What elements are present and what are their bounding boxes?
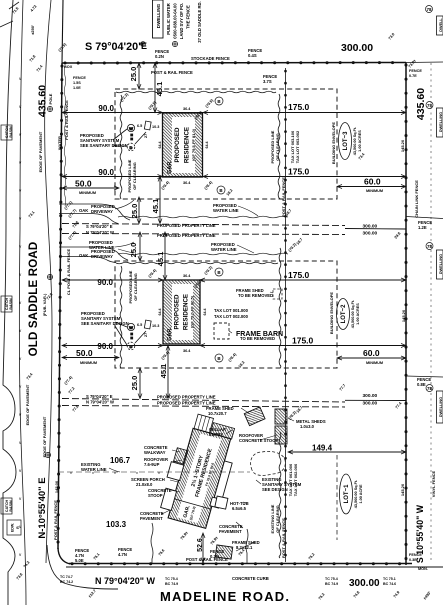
svg-text:25.0: 25.0 xyxy=(130,204,139,219)
svg-text:TAX LOT 002.000: TAX LOT 002.000 xyxy=(293,463,298,496)
svg-text:27: 27 xyxy=(144,333,148,337)
svg-text:DWELLING: DWELLING xyxy=(439,397,443,417)
svg-text:BUILDING ENVELOPE: BUILDING ENVELOPE xyxy=(329,292,334,335)
svg-text:±250': ±250' xyxy=(30,25,35,35)
svg-text:S 79°04'20" E: S 79°04'20" E xyxy=(86,394,113,399)
svg-text:145.20: 145.20 xyxy=(400,483,405,496)
svg-text:435.60: 435.60 xyxy=(37,85,49,117)
svg-text:36.4: 36.4 xyxy=(183,181,191,185)
svg-text:4.7N: 4.7N xyxy=(118,552,127,557)
svg-text:DRIVEWAY: DRIVEWAY xyxy=(91,209,113,214)
svg-text:SEE DESIGN: SEE DESIGN xyxy=(262,487,288,492)
svg-text:0.8E: 0.8E xyxy=(417,382,426,387)
svg-text:6.5: 6.5 xyxy=(137,124,142,128)
svg-text:v: v xyxy=(158,470,160,475)
svg-text:25.0: 25.0 xyxy=(129,67,138,82)
svg-text:45.1: 45.1 xyxy=(156,252,165,267)
svg-text:CONCRETE CURB: CONCRETE CURB xyxy=(232,576,269,581)
svg-text:SEE SANITARY DESIGN: SEE SANITARY DESIGN xyxy=(80,143,128,148)
svg-text:25.0: 25.0 xyxy=(130,376,139,391)
svg-text:103.3: 103.3 xyxy=(106,520,127,529)
svg-text:N-10°55'40" E: N-10°55'40" E xyxy=(37,477,48,538)
svg-text:EDGE OF PAVEMENT: EDGE OF PAVEMENT xyxy=(25,384,30,425)
svg-text:STOCKADE FENCE: STOCKADE FENCE xyxy=(191,56,230,61)
svg-text:52.6: 52.6 xyxy=(197,538,204,552)
svg-text:SEE SANITARY DESIGN: SEE SANITARY DESIGN xyxy=(81,321,129,326)
svg-text:DRIVEWAY: DRIVEWAY xyxy=(91,254,113,259)
svg-text:BC 74.2: BC 74.2 xyxy=(60,580,73,584)
svg-text:W: W xyxy=(129,126,133,131)
svg-text:EDGE OF PAVEMENT: EDGE OF PAVEMENT xyxy=(42,416,47,457)
svg-text:10.3: 10.3 xyxy=(152,125,159,129)
svg-text:LOT~2: LOT~2 xyxy=(341,304,347,324)
svg-text:300.00: 300.00 xyxy=(341,42,373,54)
svg-text:R: R xyxy=(16,526,20,529)
svg-text:DWELLING: DWELLING xyxy=(439,112,443,132)
svg-text:FENCE: FENCE xyxy=(409,69,422,73)
svg-text:1.00 ACRES: 1.00 ACRES xyxy=(358,130,362,152)
svg-text:MINIMUM: MINIMUM xyxy=(366,189,383,193)
svg-text:300.00: 300.00 xyxy=(363,224,378,230)
svg-text:43,560.00 Sq.Ft.: 43,560.00 Sq.Ft. xyxy=(354,480,358,509)
svg-text:64.4: 64.4 xyxy=(158,309,162,316)
svg-text:PROPOSED: PROPOSED xyxy=(174,294,181,330)
svg-text:60.0: 60.0 xyxy=(363,348,380,358)
svg-text:POLE: POLE xyxy=(48,93,53,104)
svg-text:1.00 ACRES: 1.00 ACRES xyxy=(356,303,360,325)
svg-text:S 79°04'20": S 79°04'20" xyxy=(85,41,143,53)
svg-text:64.4: 64.4 xyxy=(205,142,209,149)
svg-text:25.0: 25.0 xyxy=(129,243,138,258)
svg-text:TO BE REMOVED: TO BE REMOVED xyxy=(238,293,273,298)
svg-text:43,560.00 Sq.Ft.: 43,560.00 Sq.Ft. xyxy=(353,127,357,156)
svg-text:LAND SVY OF PO.: LAND SVY OF PO. xyxy=(179,3,184,39)
svg-text:OF CLEARING: OF CLEARING xyxy=(275,133,280,161)
svg-text:MON.: MON. xyxy=(418,567,428,571)
svg-text:GAR.: GAR. xyxy=(167,160,173,174)
svg-text:OF CLEARING: OF CLEARING xyxy=(133,273,138,301)
svg-text:GAR.: GAR. xyxy=(167,327,173,341)
svg-text:78: 78 xyxy=(427,386,433,391)
svg-text:RESIDENCE: RESIDENCE xyxy=(184,127,191,163)
svg-text:PROPOSED PROPERTY LINE: PROPOSED PROPERTY LINE xyxy=(157,233,216,238)
svg-text:145.20: 145.20 xyxy=(400,139,405,152)
svg-text:1.5S: 1.5S xyxy=(73,81,81,85)
svg-text:6.5x6.5: 6.5x6.5 xyxy=(232,506,247,511)
svg-text:90.0: 90.0 xyxy=(98,168,114,177)
svg-text:50.0: 50.0 xyxy=(76,348,93,358)
svg-text:WATER LINE: WATER LINE xyxy=(89,245,115,250)
svg-text:45.1: 45.1 xyxy=(159,364,168,379)
svg-text:50.0: 50.0 xyxy=(75,179,92,189)
svg-text:MINIMUM: MINIMUM xyxy=(366,361,383,365)
svg-text:300.00: 300.00 xyxy=(363,393,378,399)
svg-text:1.0E: 1.0E xyxy=(73,86,81,90)
svg-text:PROPOSED: PROPOSED xyxy=(174,127,181,163)
svg-text:90.0: 90.0 xyxy=(97,278,113,287)
svg-text:78: 78 xyxy=(427,103,433,108)
svg-text:FENCE: FENCE xyxy=(409,553,422,557)
svg-text:W: W xyxy=(129,325,133,330)
svg-text:PROPOSED PROPERTY LINE: PROPOSED PROPERTY LINE xyxy=(157,223,216,228)
svg-text:0.2N: 0.2N xyxy=(155,54,164,59)
svg-text:8.2x12.1: 8.2x12.1 xyxy=(236,545,253,550)
svg-text:WATER LINE: WATER LINE xyxy=(81,467,107,472)
svg-text:64.4: 64.4 xyxy=(203,309,207,316)
svg-text:N 79°04'20" W: N 79°04'20" W xyxy=(86,400,114,405)
svg-text:STOOP: STOOP xyxy=(148,493,163,498)
svg-text:POST & RAIL FENCE: POST & RAIL FENCE xyxy=(281,177,286,217)
svg-text:MADELINE ROAD.: MADELINE ROAD. xyxy=(160,589,290,604)
svg-text:145.00: 145.00 xyxy=(54,480,59,493)
svg-text:BC 74.9: BC 74.9 xyxy=(325,582,338,586)
svg-text:435.60: 435.60 xyxy=(415,88,427,120)
svg-text:43,560.00 Sq.Ft.: 43,560.00 Sq.Ft. xyxy=(351,300,355,329)
svg-text:POST & RAIL FENCE: POST & RAIL FENCE xyxy=(151,70,193,75)
svg-text:D: D xyxy=(130,344,133,349)
svg-text:OAK: OAK xyxy=(79,253,88,258)
svg-text:10.7x20.7: 10.7x20.7 xyxy=(208,411,227,416)
svg-text:175.0: 175.0 xyxy=(288,270,310,280)
svg-text:PAVEMENT: PAVEMENT xyxy=(219,529,242,534)
svg-text:60.0: 60.0 xyxy=(364,177,381,187)
svg-text:45.1: 45.1 xyxy=(151,199,160,214)
svg-text:0.4S: 0.4S xyxy=(248,53,257,58)
svg-text:10.3: 10.3 xyxy=(152,324,159,328)
svg-text:36.4: 36.4 xyxy=(183,274,191,278)
svg-text:MINIMUM: MINIMUM xyxy=(79,191,96,195)
svg-text:300.00: 300.00 xyxy=(363,230,378,236)
svg-text:1.0x3.0: 1.0x3.0 xyxy=(300,424,315,429)
svg-text:BUILDING ENVELOPE: BUILDING ENVELOPE xyxy=(331,122,336,165)
svg-text:D: D xyxy=(130,145,133,150)
svg-text:PAVEMENT: PAVEMENT xyxy=(140,516,163,521)
svg-text:300.00: 300.00 xyxy=(349,578,380,589)
svg-text:6.5: 6.5 xyxy=(137,323,142,327)
svg-text:36.4: 36.4 xyxy=(183,349,191,353)
svg-text:FRAME BARN: FRAME BARN xyxy=(236,331,283,338)
svg-text:175.0: 175.0 xyxy=(288,102,310,112)
svg-text:45.1: 45.1 xyxy=(155,82,164,97)
svg-text:TC 75.4: TC 75.4 xyxy=(325,577,338,581)
svg-text:TAX LOT 003.002: TAX LOT 003.002 xyxy=(295,130,300,163)
svg-text:36.4: 36.4 xyxy=(183,107,191,111)
svg-text:106.7: 106.7 xyxy=(110,456,131,465)
svg-text:CONCRETE STOOP: CONCRETE STOOP xyxy=(239,438,278,443)
svg-text:POST & RAIL FENCE: POST & RAIL FENCE xyxy=(186,557,228,562)
svg-text:(GF 79.0-FF 80.5): (GF 79.0-FF 80.5) xyxy=(190,295,195,328)
svg-text:TC 75.4: TC 75.4 xyxy=(165,577,178,581)
svg-text:0.2N: 0.2N xyxy=(210,554,219,559)
svg-text:OF CLEARING: OF CLEARING xyxy=(275,505,280,533)
svg-text:21.0x8.0: 21.0x8.0 xyxy=(136,482,153,487)
svg-text:THE FENCE: THE FENCE xyxy=(186,5,191,29)
svg-text:BOX: BOX xyxy=(64,65,73,69)
svg-text:1.00 ACRE: 1.00 ACRE xyxy=(359,484,363,504)
svg-text:175.0: 175.0 xyxy=(292,336,314,346)
svg-text:CHAIN LINK FENCE: CHAIN LINK FENCE xyxy=(414,180,419,218)
svg-text:175.0: 175.0 xyxy=(288,167,310,177)
svg-text:145.20: 145.20 xyxy=(401,309,406,322)
svg-text:LOT~3: LOT~3 xyxy=(343,131,349,151)
svg-text:WATER LINE: WATER LINE xyxy=(213,208,239,213)
svg-text:POST & RAIL FENCE: POST & RAIL FENCE xyxy=(281,518,286,558)
svg-text:N 79°04'20" W: N 79°04'20" W xyxy=(86,230,114,235)
svg-text:DWELLING: DWELLING xyxy=(439,254,443,274)
svg-text:TAX LOT 002.000: TAX LOT 002.000 xyxy=(214,314,249,319)
svg-text:WALKWAY: WALKWAY xyxy=(144,450,166,455)
svg-text:300.00: 300.00 xyxy=(363,400,378,406)
svg-text:OF CLEARING: OF CLEARING xyxy=(132,162,137,190)
svg-text:RESIDENCE: RESIDENCE xyxy=(183,294,190,330)
svg-text:TAX LOT 001.000: TAX LOT 001.000 xyxy=(214,308,249,313)
svg-text:149.4: 149.4 xyxy=(312,444,333,453)
svg-text:v: v xyxy=(136,470,138,475)
svg-text:DWELL: DWELL xyxy=(439,18,443,32)
svg-text:BC 74.6: BC 74.6 xyxy=(383,582,396,586)
svg-text:PROPOSED PROPERTY LINE: PROPOSED PROPERTY LINE xyxy=(157,395,216,400)
svg-text:WATER LINE: WATER LINE xyxy=(211,247,237,252)
svg-text:64.4: 64.4 xyxy=(158,142,162,149)
svg-text:3.7S: 3.7S xyxy=(263,79,272,84)
svg-text:TC 75.1: TC 75.1 xyxy=(383,577,396,581)
svg-text:PUBLIC WATER: PUBLIC WATER xyxy=(166,3,171,35)
svg-text:WATER: WATER xyxy=(57,136,62,150)
svg-text:90.0: 90.0 xyxy=(98,104,114,113)
svg-text:5.0E: 5.0E xyxy=(75,558,84,563)
svg-text:VINYL FENCE: VINYL FENCE xyxy=(431,470,436,497)
svg-text:37 OLD SADDLE RD.: 37 OLD SADDLE RD. xyxy=(197,1,202,42)
svg-text:(GF 79.5-FF 81.0): (GF 79.5-FF 81.0) xyxy=(191,128,196,161)
svg-text:7.6-9UP: 7.6-9UP xyxy=(144,462,160,467)
svg-text:ENTRY: ENTRY xyxy=(209,432,223,437)
svg-text:v: v xyxy=(70,470,72,475)
svg-text:0.7E: 0.7E xyxy=(409,74,417,78)
svg-text:TC 74.7: TC 74.7 xyxy=(60,575,73,579)
svg-text:PROPOSED PROPERTY LINE: PROPOSED PROPERTY LINE xyxy=(157,401,216,406)
svg-text:0.3E: 0.3E xyxy=(409,558,417,562)
svg-text:27: 27 xyxy=(144,134,148,138)
svg-text:BASIN: BASIN xyxy=(9,298,13,310)
svg-text:POST & RAIL FENCE: POST & RAIL FENCE xyxy=(53,500,58,540)
svg-text:POST & RAIL FENCE: POST & RAIL FENCE xyxy=(64,100,69,140)
svg-text:0500-088.00-04.00: 0500-088.00-04.00 xyxy=(173,3,178,39)
svg-text:OAK: OAK xyxy=(79,208,88,213)
svg-text:LOT~1: LOT~1 xyxy=(344,484,350,504)
svg-text:FENCE: FENCE xyxy=(73,76,86,80)
svg-text:EDGE OF PAVEMENT: EDGE OF PAVEMENT xyxy=(38,131,43,172)
svg-text:BASIN: BASIN xyxy=(9,126,13,138)
svg-text:DWELLING: DWELLING xyxy=(156,3,161,28)
svg-text:S 79°04'20" E: S 79°04'20" E xyxy=(86,224,113,229)
svg-text:90.0: 90.0 xyxy=(97,342,113,351)
svg-text:BC 74.9: BC 74.9 xyxy=(165,582,178,586)
svg-text:1.2E: 1.2E xyxy=(418,225,427,230)
svg-text:N 79°04'20" W: N 79°04'20" W xyxy=(95,576,156,586)
svg-text:78: 78 xyxy=(427,244,433,249)
svg-text:MINIMUM: MINIMUM xyxy=(80,361,97,365)
svg-text:CL POST & RAIL FENCE: CL POST & RAIL FENCE xyxy=(66,249,71,296)
svg-text:OLD SADDLE ROAD: OLD SADDLE ROAD xyxy=(28,242,40,357)
svg-text:EDW.: EDW. xyxy=(11,523,15,532)
svg-text:78: 78 xyxy=(426,7,432,12)
svg-text:BASIN: BASIN xyxy=(9,500,13,512)
